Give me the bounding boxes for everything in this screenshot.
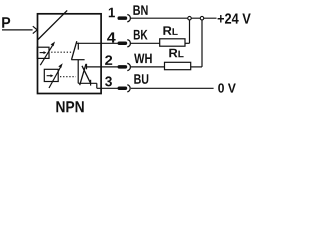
switch 1 lever (NO contact) <box>72 41 77 60</box>
label NPN <box>56 101 83 112</box>
wire pin3 0V line <box>97 87 118 89</box>
resistor RL2 <box>165 62 191 69</box>
wire BN to +24V <box>131 17 217 19</box>
adjustability slash arrow 1 <box>40 45 53 65</box>
wire pin2 from contact to terminal <box>87 66 118 68</box>
switch 2 lever second leg (changeover) <box>80 64 86 85</box>
wire common down connector <box>77 60 79 84</box>
label RL 1 <box>163 26 171 35</box>
connector pin 3 <box>118 85 131 92</box>
amplifier block 2 <box>44 69 58 81</box>
wire resistor1 to rail <box>185 42 190 44</box>
node junction 1 <box>188 16 192 20</box>
arrow inside block 2 <box>47 75 51 77</box>
label 0 V <box>218 83 236 92</box>
wire P input line <box>2 29 33 31</box>
terminal number 4 <box>107 32 116 42</box>
label RL 2 <box>169 49 177 58</box>
wire switch2 common bottom <box>78 82 97 84</box>
label BK <box>134 30 148 40</box>
label BN <box>133 5 147 15</box>
connector pin 1 <box>118 15 131 22</box>
wire drop to 0V level <box>96 83 98 88</box>
switch 2 lever (contact) <box>82 66 90 83</box>
sensor body box <box>38 14 102 94</box>
terminal number 2 <box>105 55 112 65</box>
dotted actuation line 1 <box>51 51 73 53</box>
label +24 V <box>218 13 251 23</box>
wire BU to 0V <box>131 87 214 89</box>
label WH <box>134 54 152 64</box>
connector pin 2 <box>118 63 131 70</box>
dotted actuation line 2 <box>60 76 76 78</box>
wire switch1 common <box>71 59 84 61</box>
wire rail 1 up <box>189 18 191 43</box>
terminal number 3 <box>105 76 112 86</box>
terminal number 1 <box>109 8 115 18</box>
wire pin4 from contact to terminal <box>77 42 118 44</box>
amplifier block 1 <box>37 47 49 58</box>
wire BK to resistor <box>131 42 161 44</box>
node junction 2 <box>200 16 204 20</box>
wire WH to resistor <box>131 66 165 68</box>
switch 2 contact tick on bottom wire <box>90 80 92 86</box>
diagonal (proximity/converter symbol) <box>38 10 67 39</box>
arrowhead open (input into sensor) <box>33 26 37 33</box>
switch 1 fixed contact <box>77 43 79 50</box>
label P (pressure input) <box>2 17 10 28</box>
adjustability slash arrow 2 <box>49 67 61 88</box>
arrow inside block 1 <box>40 52 44 54</box>
switch 2 fixed contact upper <box>86 64 88 70</box>
wire rail 2 up <box>201 18 203 67</box>
label BU <box>134 74 148 84</box>
wire resistor2 to rail <box>191 66 203 68</box>
connector pin 4 <box>118 40 131 47</box>
resistor RL1 <box>160 39 185 46</box>
